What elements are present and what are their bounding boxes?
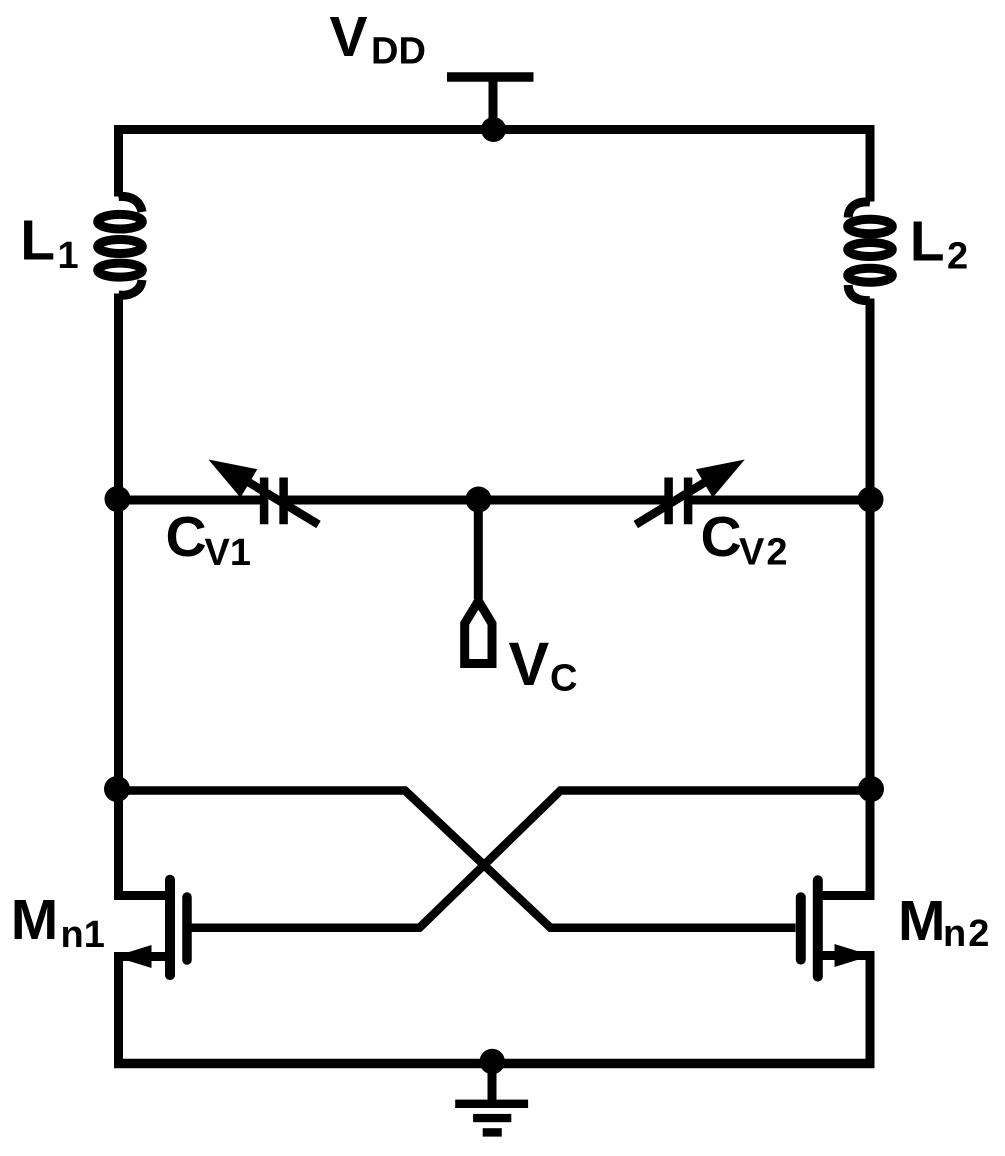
- svg-text:L: L: [910, 210, 945, 274]
- svg-text:V: V: [509, 630, 550, 698]
- svg-text:M: M: [898, 889, 945, 953]
- svg-text:V2: V2: [739, 532, 789, 574]
- svg-text:C: C: [166, 505, 207, 569]
- svg-text:V: V: [330, 5, 368, 69]
- svg-text:M: M: [11, 888, 58, 952]
- svg-text:C: C: [550, 658, 577, 700]
- svg-text:n1: n1: [61, 914, 105, 956]
- svg-text:V1: V1: [205, 532, 251, 574]
- svg-text:L: L: [20, 209, 55, 273]
- svg-text:DD: DD: [371, 31, 426, 73]
- svg-text:n2: n2: [943, 913, 991, 955]
- svg-text:1: 1: [58, 235, 79, 277]
- svg-text:C: C: [701, 505, 742, 569]
- svg-text:2: 2: [947, 236, 968, 278]
